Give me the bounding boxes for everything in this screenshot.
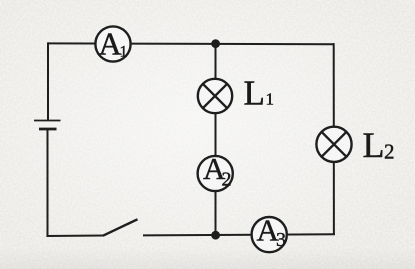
wire (bottom-left, switch pivot to bottom-left corner): [46, 235, 103, 238]
svg-text:L: L: [244, 74, 265, 113]
wire (top, from top-left corner to top-right corner): [48, 42, 334, 45]
ammeter A2: [198, 151, 233, 191]
node (bottom junction dot): [211, 231, 220, 240]
wire (left side, upper: battery up to top-left corner): [47, 42, 49, 120]
lamp L2: [316, 127, 351, 162]
ammeter A1: [95, 26, 130, 62]
battery B1: [34, 121, 61, 130]
svg-text:L: L: [363, 125, 385, 165]
wire (middle branch, top node down to bottom node): [215, 44, 217, 236]
ammeter A3: [252, 213, 287, 253]
wire (left side, lower: bottom-left corner up to battery): [47, 129, 49, 237]
svg-text:1: 1: [120, 44, 128, 61]
lamp L1: [198, 79, 232, 113]
svg-text:2: 2: [384, 140, 395, 164]
battery short plate (negative): [39, 128, 57, 131]
svg-text:2: 2: [222, 169, 232, 191]
label L1: [244, 74, 275, 113]
node (top junction dot): [211, 39, 220, 48]
svg-text:A: A: [99, 26, 122, 62]
wire (right side, top-right corner down to bottom-right corner): [333, 43, 335, 234]
svg-text:1: 1: [266, 90, 275, 109]
switch S1 (open blade): [103, 219, 138, 235]
svg-text:3: 3: [276, 229, 286, 251]
label L2: [363, 125, 395, 165]
battery long plate (positive): [34, 120, 61, 122]
wire (bottom, bottom-right corner to switch gap): [143, 234, 335, 235]
